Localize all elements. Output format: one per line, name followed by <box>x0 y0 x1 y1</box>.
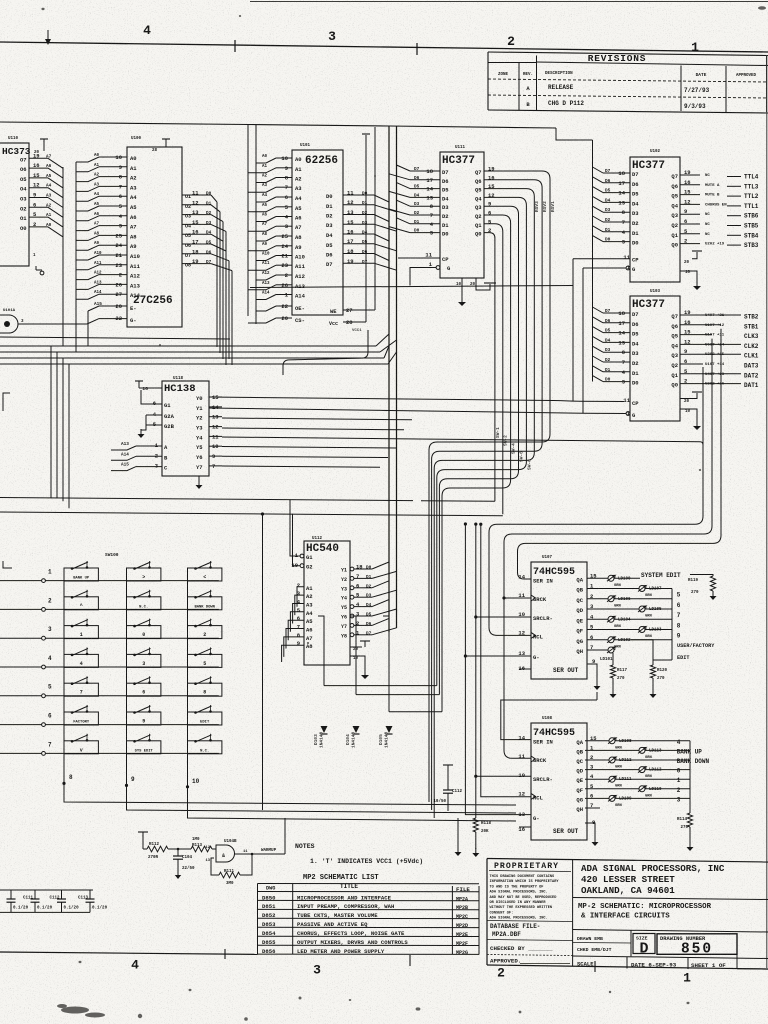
power stub U111 <box>476 278 496 290</box>
company cell <box>573 863 768 932</box>
resistor R112 <box>143 843 168 860</box>
switch SW100 r5c1 <box>64 676 98 696</box>
switch SW100 r2c2 <box>127 590 161 610</box>
switch SW100 r5c2 <box>127 676 161 696</box>
switch SW100 r7c3 <box>188 734 222 754</box>
capacitor C112 <box>433 765 462 811</box>
power pin U100 VCC <box>152 139 170 153</box>
power stub U112 <box>350 641 370 652</box>
led LD102 tail resistor R120 <box>630 640 668 698</box>
connector stub left 1 <box>3 393 10 411</box>
pin labels U107 <box>576 572 597 655</box>
wire led rail U108 <box>689 741 691 813</box>
wire gate feedback R111 <box>211 854 252 886</box>
wire bus vertical B <box>75 162 77 352</box>
wire Y4 net <box>222 437 703 448</box>
wire warmup <box>235 818 286 855</box>
capacitor bank C110-C113 <box>0 890 108 912</box>
switch row 5 wire <box>0 684 219 698</box>
wire track3 SERIN <box>518 329 722 579</box>
power stub U102 <box>680 251 702 265</box>
switch SW100 r4c1 <box>64 647 98 667</box>
switch SW100 r6c3 <box>188 705 222 725</box>
edge line top <box>250 1 768 3</box>
wire CP net <box>209 259 624 402</box>
ground stub U112 <box>350 656 369 679</box>
wire long row line 2 <box>0 512 503 516</box>
wire link 685 <box>324 685 437 687</box>
ground stub U110 <box>33 254 44 275</box>
wire switch column 9 <box>125 568 516 813</box>
labels bus nets rotated <box>495 201 556 470</box>
ground stub U102 <box>680 271 701 290</box>
register U102 HC377 <box>573 150 759 282</box>
title block frame <box>487 859 768 970</box>
switch SW100 r6c1 <box>64 705 98 725</box>
sram U101 62256 <box>248 127 397 333</box>
wire Y7 net <box>222 466 380 467</box>
wire bus 62256 addr <box>248 125 256 325</box>
page edge line right <box>766 55 768 968</box>
resistor R114 <box>677 813 694 851</box>
power stub U103 <box>680 392 702 404</box>
drawn cell <box>573 931 768 970</box>
switch SW100 r1c3 <box>188 561 222 581</box>
wire long net B <box>250 286 573 288</box>
page border ruler top <box>0 30 768 55</box>
ground stub U103 <box>680 409 701 430</box>
diode D104 1N4148 <box>345 616 360 748</box>
switch SW100 r3c2 <box>127 619 161 639</box>
wire U107 pin16 <box>519 668 531 670</box>
wire link 711 <box>389 711 442 713</box>
wire data bundle <box>0 334 397 508</box>
wire switch column 10 <box>186 568 516 821</box>
resistor R119 <box>688 576 717 600</box>
wire long net A <box>0 337 230 339</box>
switch SW100 r2c3 <box>188 590 222 610</box>
wire bus vertical A <box>62 167 64 347</box>
notes text <box>295 843 423 865</box>
switch SW100 r5c3 <box>188 676 222 696</box>
switch row 2 wire <box>0 597 219 611</box>
switch row 1 wire <box>0 569 219 583</box>
table MP2 schematic list <box>258 874 480 956</box>
switch SW100 r6c2 <box>127 705 161 725</box>
wire Y5 net <box>222 447 396 449</box>
pin labels U108 <box>576 735 597 813</box>
wire long row line 1 <box>0 498 495 502</box>
diode D103 1N4148 <box>313 616 328 748</box>
switch SW100 r1c1 <box>64 561 98 581</box>
wire U108 ser out <box>585 823 599 846</box>
eprom U100 27C256 <box>76 137 232 346</box>
wire data bus right <box>592 140 594 382</box>
wire Y6 net <box>222 456 388 457</box>
register U111 HC377 <box>389 146 495 287</box>
switch SW100 r3c3 <box>188 619 222 639</box>
switch row 3 wire <box>0 626 219 640</box>
labels U108 outputs <box>677 739 710 804</box>
power T R112 <box>138 832 148 849</box>
resistor R118 <box>472 818 491 857</box>
latch U110 HC373 <box>0 137 63 266</box>
switch SW100 r7c1 <box>64 734 98 754</box>
switch SW100 r4c3 <box>188 647 222 667</box>
register U103 HC377 <box>593 290 759 421</box>
ground U118 <box>196 476 203 489</box>
size cell <box>633 934 655 958</box>
switch row 4 wire <box>0 655 219 669</box>
label SYSTEM EDIT <box>641 572 713 579</box>
connector stub left 2 <box>3 561 12 568</box>
wire track2 SRCK <box>502 339 712 759</box>
wire RCL U108 drop <box>479 523 531 797</box>
register U107 74HC595 <box>518 556 595 679</box>
power pin U110 VCC <box>34 139 48 155</box>
switch row 6 wire <box>0 713 219 727</box>
diode D105 1N4148 <box>378 616 393 748</box>
switch SW100 r1c2 <box>127 561 161 581</box>
leds U107 <box>587 575 672 649</box>
labels U107 outputs <box>677 592 716 661</box>
wire U107 ser out <box>501 664 601 740</box>
wire track1 RCL <box>489 367 703 635</box>
wire led rail U107 <box>653 589 672 661</box>
switch row 7 wire <box>0 741 219 755</box>
wire link 694 <box>356 694 439 696</box>
wire data bus pair <box>389 126 397 632</box>
capacitor C104 <box>168 848 195 879</box>
ground U111 <box>458 278 466 306</box>
leds U108 <box>585 738 690 808</box>
switch SW100 r7c2 <box>127 734 161 754</box>
ground drop 458 <box>455 818 462 856</box>
wire top rail <box>0 122 593 140</box>
zone ticks bottom <box>225 949 595 972</box>
switch SW100 r2c1 <box>64 590 98 610</box>
buffer U112 HC540 <box>282 500 397 665</box>
resistor R113 <box>191 838 216 852</box>
led LD101 row <box>587 647 628 698</box>
wire Y3 net <box>222 428 404 430</box>
register U108 74HC595 <box>518 717 595 840</box>
drawing number cell <box>657 934 737 958</box>
revisions table <box>488 52 768 113</box>
wire U108 pin16 <box>519 826 531 828</box>
wire Y2 net <box>222 418 412 420</box>
wire SRCLR net <box>474 523 531 819</box>
wire bridge net <box>283 330 368 375</box>
decoder U118 HC138 <box>111 377 222 476</box>
wire G net <box>209 268 626 414</box>
border bottom <box>0 952 768 969</box>
wire G net 595 <box>464 522 531 814</box>
wire drop 262 <box>261 512 264 810</box>
switch SW100 r4c2 <box>127 647 161 667</box>
wire fan U111 outputs <box>429 171 550 818</box>
proprietary cell <box>487 862 573 965</box>
gate U101A <box>0 309 87 333</box>
wire EPROM data verticals <box>217 202 232 365</box>
gate U104B <box>205 840 237 863</box>
wire switch column 8 <box>62 568 516 805</box>
switch SW100 r3c1 <box>64 619 98 639</box>
